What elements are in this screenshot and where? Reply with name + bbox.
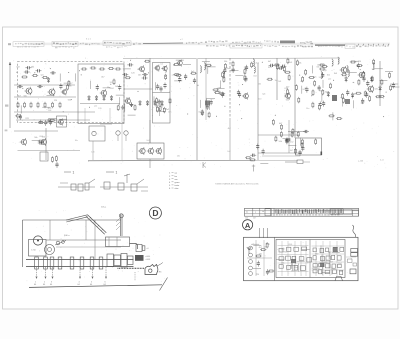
capacitor <box>362 76 365 82</box>
wire <box>156 104 164 106</box>
wire vertical main 3 <box>229 58 231 118</box>
wire <box>295 256 297 264</box>
resistor <box>15 115 21 117</box>
diode <box>327 91 330 97</box>
wire to board <box>263 228 265 238</box>
resistor <box>355 92 361 94</box>
resistor <box>295 84 297 90</box>
wire <box>59 118 67 120</box>
transistor <box>138 147 145 155</box>
transistor <box>48 88 56 96</box>
svg-text:c60/8: c60/8 <box>146 259 151 261</box>
resistor <box>369 95 371 101</box>
annotation text <box>106 46 128 48</box>
junction dot <box>130 60 131 61</box>
wire <box>379 79 387 81</box>
resistor <box>30 102 32 108</box>
resistor <box>302 76 304 82</box>
resistor <box>223 76 225 82</box>
capacitor <box>256 144 259 150</box>
junction dot <box>79 70 80 71</box>
junction dot <box>241 118 242 119</box>
wire <box>80 103 120 105</box>
svg-text:fm: fm <box>175 176 178 178</box>
capacitor <box>55 162 58 168</box>
board trace <box>300 241 302 276</box>
wire <box>321 254 323 262</box>
board component <box>320 257 324 261</box>
antenna lead wavy <box>353 225 356 237</box>
board trace <box>312 269 345 271</box>
inductor <box>347 65 348 73</box>
capacitor <box>24 70 30 73</box>
module divider <box>309 240 311 278</box>
wire <box>176 59 184 61</box>
junction dot <box>360 69 361 70</box>
dial pointer line <box>9 62 11 128</box>
dial pointer arrow <box>9 62 11 65</box>
resistor <box>291 131 293 137</box>
board divider <box>274 237 276 280</box>
connector block <box>351 253 358 257</box>
junction dot <box>71 99 72 100</box>
junction dot <box>305 88 306 89</box>
capacitor <box>301 145 304 151</box>
svg-text:1: 1 <box>73 171 75 175</box>
resistor <box>356 65 362 67</box>
resistor <box>371 76 373 82</box>
annotation text <box>232 41 261 44</box>
resistor <box>251 62 253 68</box>
enclosure small <box>40 152 48 161</box>
cord mid rail 2 <box>56 246 121 248</box>
band underlay <box>28 43 390 46</box>
transistor <box>154 65 160 72</box>
board side rail <box>245 213 359 215</box>
board trace <box>278 245 309 247</box>
junction dot <box>262 62 263 63</box>
switch contact <box>131 184 137 191</box>
transistor <box>358 71 365 79</box>
wire <box>149 159 151 168</box>
svg-text:2n2: 2n2 <box>227 151 230 153</box>
capacitor <box>245 65 248 71</box>
knurled rod <box>118 267 145 269</box>
svg-text:0,1: 0,1 <box>155 106 158 108</box>
wire <box>47 94 55 96</box>
table cell <box>13 42 44 47</box>
shaft collar <box>90 257 94 269</box>
shaft gear <box>107 254 114 267</box>
resistor <box>17 102 19 108</box>
board component <box>302 247 307 251</box>
transistor on board <box>249 253 253 257</box>
shaft gear <box>128 256 134 265</box>
capacitor <box>159 86 162 92</box>
resistor <box>358 79 360 85</box>
capacitor <box>178 77 181 83</box>
inductor <box>200 65 201 73</box>
resistor <box>219 93 225 95</box>
svg-text:10n: 10n <box>158 150 161 152</box>
switch contact <box>104 182 110 189</box>
wire <box>375 68 383 70</box>
table rule <box>143 42 183 45</box>
transistor <box>20 138 27 146</box>
wire <box>207 66 209 74</box>
shaft collar <box>44 257 48 269</box>
wire <box>288 145 296 147</box>
resistor <box>342 97 344 103</box>
socket <box>116 131 120 135</box>
transistor <box>155 147 162 155</box>
resistor <box>322 89 324 95</box>
resistor <box>175 74 181 76</box>
enclosure IF block <box>78 64 124 124</box>
capacitor <box>38 141 44 144</box>
wire <box>253 268 261 270</box>
board trace <box>278 254 309 256</box>
shaft collar <box>99 257 103 269</box>
board inner module <box>276 240 345 278</box>
wire rail right <box>198 57 340 60</box>
wire vertical main 2 <box>196 58 198 160</box>
wire <box>258 134 300 136</box>
wire <box>390 83 398 85</box>
table cell <box>52 41 78 46</box>
junction dot <box>187 114 188 115</box>
wire <box>332 252 340 254</box>
transistor on board <box>249 266 253 270</box>
board component <box>319 270 322 274</box>
resistor <box>173 63 179 65</box>
svg-text:TUNING RANGE AM 510-1620 kc F: TUNING RANGE AM 510-1620 kc FM 87-104 Mc <box>215 183 259 186</box>
connector block <box>351 249 358 253</box>
wire <box>285 161 297 163</box>
legend row <box>169 176 177 178</box>
wire <box>89 81 91 89</box>
svg-text:C64: C64 <box>48 110 51 112</box>
junction dot <box>216 116 217 117</box>
wire <box>109 108 111 124</box>
svg-text:taste: taste <box>175 184 181 187</box>
capacitor <box>285 138 288 144</box>
wire <box>117 135 119 141</box>
capacitor <box>262 149 265 155</box>
transistor <box>161 65 167 72</box>
wire <box>18 150 81 152</box>
resistor <box>55 155 57 161</box>
capacitor <box>257 261 260 267</box>
resistor <box>314 80 316 86</box>
capacitor <box>244 76 247 82</box>
strip divider <box>259 208 261 216</box>
board component <box>279 248 283 252</box>
capacitor <box>96 84 99 90</box>
resistor <box>305 69 307 75</box>
annotation text <box>232 45 261 47</box>
enclosure driver block <box>137 143 164 159</box>
wire vertical main 1 <box>149 58 151 143</box>
resistor <box>244 75 246 81</box>
capacitor <box>44 120 47 126</box>
svg-text:10n: 10n <box>107 87 110 89</box>
resistor <box>163 107 165 113</box>
pointer carriage <box>145 265 158 275</box>
wire <box>155 104 157 112</box>
wire <box>311 65 313 73</box>
transistor <box>40 138 47 146</box>
svg-text:10n: 10n <box>313 76 316 78</box>
svg-text:2n2: 2n2 <box>303 89 306 91</box>
svg-text:1: 1 <box>116 171 118 175</box>
junction dot <box>242 84 243 85</box>
wire <box>103 87 111 89</box>
board trace <box>312 253 345 255</box>
transistor <box>57 118 63 125</box>
wire <box>207 97 215 99</box>
resistor <box>37 102 39 108</box>
annotation text <box>300 42 313 44</box>
capacitor <box>206 104 209 110</box>
wire <box>141 190 148 192</box>
diode <box>110 95 113 101</box>
board component <box>320 248 324 252</box>
wire vertical <box>288 120 290 153</box>
resistor <box>144 60 150 62</box>
svg-text:56k: 56k <box>298 63 301 65</box>
diode <box>161 100 164 106</box>
svg-text:c60/4: c60/4 <box>146 256 151 258</box>
wire <box>209 102 211 110</box>
carriage tail <box>157 263 163 267</box>
contact lever <box>124 174 130 176</box>
cord run <box>49 220 51 240</box>
capacitor <box>232 67 235 73</box>
resistor <box>301 139 303 145</box>
wire <box>328 251 330 259</box>
transistor <box>138 65 145 72</box>
wire <box>328 260 330 268</box>
capacitor <box>127 63 133 66</box>
resistor <box>59 102 61 108</box>
resistor <box>285 139 291 141</box>
wire <box>302 248 310 250</box>
capacitor <box>25 66 31 69</box>
resistor <box>159 105 161 111</box>
board component <box>333 270 337 274</box>
left margin mark <box>8 43 11 45</box>
wire <box>149 120 151 143</box>
board component <box>313 248 316 252</box>
board component <box>326 256 330 260</box>
annotation text <box>15 43 43 45</box>
tuning shaft <box>26 259 134 266</box>
resistor <box>274 64 280 66</box>
resistor <box>201 110 203 116</box>
annotation text <box>104 42 130 45</box>
wire <box>75 73 77 81</box>
board side rail <box>245 210 359 212</box>
svg-text:5b7: 5b7 <box>253 218 256 220</box>
resistor <box>21 76 27 78</box>
wire <box>206 98 208 106</box>
diode <box>370 76 373 82</box>
junction dot <box>110 84 111 85</box>
resistor <box>156 97 158 103</box>
board component <box>279 265 283 269</box>
annotation text <box>17 46 39 48</box>
resistor <box>301 142 303 148</box>
dark component <box>205 101 210 106</box>
capacitor <box>238 92 241 98</box>
wire <box>385 70 393 72</box>
shaft collar <box>35 257 39 269</box>
inductor <box>205 62 206 70</box>
wire <box>341 99 343 107</box>
wire <box>321 94 323 102</box>
wire <box>157 110 165 112</box>
board component <box>287 265 291 269</box>
svg-text:120: 120 <box>98 108 101 110</box>
wire <box>100 186 148 188</box>
svg-text:506-a: 506-a <box>101 207 107 209</box>
board trace <box>255 240 257 276</box>
resistor <box>267 78 273 80</box>
diode <box>95 95 98 101</box>
board component <box>332 255 335 259</box>
wire <box>303 161 310 163</box>
wire to board <box>267 228 269 238</box>
svg-text:D: D <box>152 208 158 218</box>
diode <box>88 95 91 101</box>
resistor <box>294 148 296 154</box>
board trace <box>247 257 272 259</box>
transistor <box>124 97 131 104</box>
junction dot <box>224 106 225 107</box>
position pointer <box>50 267 54 286</box>
wire <box>253 245 261 247</box>
resistor <box>321 66 327 68</box>
wire <box>331 267 333 275</box>
resistor <box>232 61 234 67</box>
svg-text:56k: 56k <box>316 67 319 69</box>
junction dot <box>68 72 69 73</box>
svg-text:120: 120 <box>110 82 113 84</box>
capacitor <box>280 65 286 68</box>
junction dot <box>383 116 384 117</box>
resistor <box>156 106 158 112</box>
wire <box>84 108 86 122</box>
capacitor <box>250 154 256 157</box>
elbow fitting <box>136 245 142 252</box>
svg-text:A: A <box>245 221 251 230</box>
enclosure IF transformer <box>153 63 171 124</box>
svg-text:4k7: 4k7 <box>137 69 140 71</box>
gearbox detail <box>108 237 110 247</box>
svg-text:4k7: 4k7 <box>228 128 231 130</box>
pulley post <box>119 214 123 236</box>
dark note dash <box>315 44 345 46</box>
board trace <box>294 241 296 276</box>
junction dot <box>244 73 245 74</box>
capacitor <box>122 73 128 76</box>
diode <box>139 100 142 106</box>
dial cord bar B <box>86 215 106 234</box>
capacitor <box>321 72 324 78</box>
wire <box>320 245 322 253</box>
wire <box>14 130 58 132</box>
junction dot <box>16 72 17 73</box>
resistor <box>287 89 289 95</box>
pointer mark <box>203 162 206 168</box>
junction dot <box>165 72 166 73</box>
wire <box>59 74 61 82</box>
annotation text <box>80 43 100 46</box>
strip cell <box>344 209 353 214</box>
capacitor <box>298 150 301 156</box>
capacitor <box>303 130 309 133</box>
board trace <box>312 245 345 247</box>
board component <box>333 248 338 252</box>
board component <box>325 264 330 268</box>
resistor <box>260 249 266 251</box>
resistor <box>292 128 294 134</box>
svg-text:a-106: a-106 <box>358 161 364 163</box>
board trace <box>346 256 356 258</box>
capacitor <box>346 90 349 96</box>
annotation text <box>55 46 76 49</box>
resistor <box>390 85 392 91</box>
board component <box>287 247 291 251</box>
wire <box>291 261 293 269</box>
resistor <box>249 159 255 161</box>
wire <box>49 118 57 120</box>
wire <box>320 261 328 263</box>
table cell <box>230 44 262 48</box>
wire vertical main 7 <box>379 61 381 106</box>
ground <box>130 103 134 107</box>
resistor <box>315 139 317 145</box>
board component <box>339 270 342 274</box>
small pulley <box>55 241 66 246</box>
board outline <box>244 237 359 280</box>
svg-text:10n: 10n <box>264 247 267 249</box>
cord hatch <box>116 218 120 230</box>
capacitor <box>221 92 224 98</box>
dark note block <box>280 41 295 44</box>
svg-text:56k: 56k <box>279 141 282 143</box>
svg-text:5p6: 5p6 <box>262 93 265 95</box>
board component <box>294 247 299 251</box>
resistor <box>283 66 285 72</box>
strip text row <box>276 214 339 215</box>
svg-text:a12: a12 <box>328 79 331 81</box>
resistor <box>51 156 53 162</box>
capacitor <box>118 84 121 90</box>
annotation text <box>282 45 311 47</box>
wire <box>351 60 359 62</box>
svg-text:10n: 10n <box>168 112 171 114</box>
junction dot <box>138 91 139 92</box>
board trace <box>305 241 307 276</box>
transistor <box>61 89 67 96</box>
svg-text:506 a: 506 a <box>64 235 70 237</box>
svg-text:C64: C64 <box>198 111 201 113</box>
resistor <box>288 74 290 80</box>
margin mark <box>5 105 8 107</box>
gearbox <box>106 237 130 247</box>
